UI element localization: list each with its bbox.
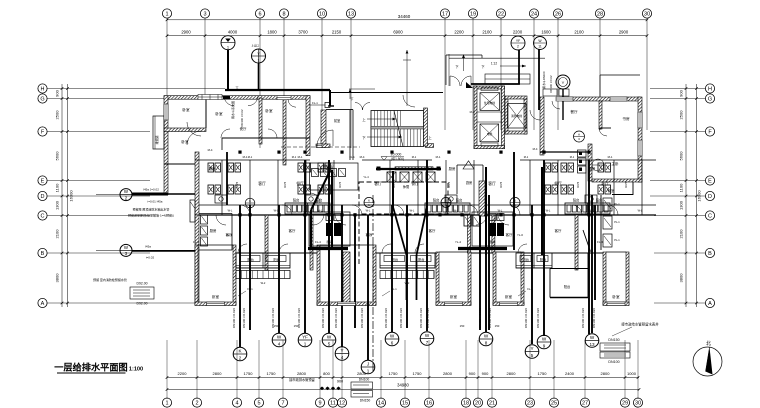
svg-text:W-L: W-L: [454, 209, 459, 213]
svg-text:厨房: 厨房: [489, 239, 495, 244]
svg-text:W-L: W-L: [590, 209, 595, 213]
svg-text:W: W: [277, 334, 282, 339]
svg-text:雨水斗系统图: 雨水斗系统图: [230, 101, 235, 119]
svg-text:排烟道: 排烟道: [154, 135, 159, 144]
svg-text:DN150: DN150: [360, 399, 371, 403]
svg-text:2150: 2150: [332, 30, 342, 35]
svg-text:2500: 2500: [679, 110, 684, 120]
svg-text:W: W: [327, 334, 332, 339]
svg-text:1750: 1750: [267, 371, 277, 376]
svg-text:1: 1: [367, 368, 370, 373]
svg-text:M-1: M-1: [298, 155, 303, 159]
svg-text:YL-5: YL-5: [366, 233, 372, 237]
svg-text:M-4: M-4: [208, 148, 213, 152]
svg-text:11: 11: [330, 401, 336, 407]
svg-text:M-1: M-1: [570, 155, 575, 159]
svg-text:9: 9: [543, 343, 546, 348]
svg-text:阳台: 阳台: [564, 284, 570, 289]
svg-text:2800: 2800: [213, 371, 223, 376]
svg-text:一层给排水平面图: 一层给排水平面图: [54, 362, 128, 373]
svg-text:DN100 i=0.026: DN100 i=0.026: [426, 308, 430, 328]
svg-text:DN75: DN75: [448, 181, 451, 188]
svg-text:B: B: [41, 251, 45, 257]
svg-text:DN100 i=0.026: DN100 i=0.026: [592, 308, 596, 328]
svg-text:书房: 书房: [622, 116, 630, 121]
svg-text:1:100: 1:100: [129, 367, 143, 373]
svg-text:A: A: [578, 133, 580, 137]
svg-text:阳台: 阳台: [596, 198, 602, 203]
svg-text:阳台: 阳台: [573, 198, 579, 203]
svg-text:1100: 1100: [679, 183, 684, 192]
svg-text:Y: Y: [340, 348, 343, 353]
svg-text:800: 800: [323, 371, 330, 376]
svg-text:客厅: 客厅: [374, 181, 382, 186]
svg-text:上山口: 上山口: [251, 44, 259, 48]
svg-text:2800: 2800: [601, 371, 611, 376]
svg-text:34460: 34460: [398, 14, 411, 19]
svg-text:M-4: M-4: [360, 155, 365, 159]
svg-text:客厅: 客厅: [429, 228, 436, 233]
svg-text:2900: 2900: [181, 30, 191, 35]
svg-text:餐厅: 餐厅: [296, 181, 304, 186]
svg-text:DN75: DN75: [236, 181, 239, 188]
svg-text:客厅: 客厅: [258, 181, 266, 186]
svg-text:28: 28: [597, 11, 603, 17]
svg-text:B: B: [708, 251, 712, 257]
svg-text:E: E: [708, 178, 712, 184]
svg-text:4: 4: [235, 401, 238, 407]
svg-text:厨房: 厨房: [449, 166, 456, 171]
svg-text:DN100 i=0.026: DN100 i=0.026: [536, 308, 540, 328]
svg-text:YF: YF: [302, 334, 308, 339]
svg-text:1600: 1600: [541, 30, 551, 35]
svg-text:1750: 1750: [413, 371, 423, 376]
svg-text:G: G: [708, 96, 712, 102]
svg-text:W-L: W-L: [228, 209, 233, 213]
svg-text:DN100 i=0.026: DN100 i=0.026: [478, 308, 482, 328]
svg-text:2500: 2500: [55, 110, 60, 120]
svg-text:M-1: M-1: [608, 155, 613, 159]
svg-text:2100: 2100: [679, 229, 684, 239]
svg-text:17: 17: [442, 11, 448, 17]
svg-text:M-1: M-1: [412, 155, 417, 159]
svg-text:YL-6: YL-6: [517, 233, 523, 237]
svg-text:阳台: 阳台: [433, 198, 439, 203]
svg-text:Y: Y: [562, 80, 565, 85]
svg-text:Y: Y: [530, 346, 533, 351]
svg-text:2400: 2400: [565, 371, 575, 376]
svg-text:16300: 16300: [69, 190, 74, 202]
svg-text:5600: 5600: [55, 151, 60, 161]
svg-text:DN100 i=0.026: DN100 i=0.026: [581, 308, 585, 328]
svg-text:H: H: [708, 86, 712, 92]
svg-text:D: D: [41, 194, 45, 200]
svg-text:2: 2: [517, 45, 519, 49]
svg-text:8: 8: [485, 340, 488, 345]
svg-text:C: C: [41, 213, 45, 219]
svg-text:150: 150: [274, 324, 279, 328]
svg-text:1750: 1750: [538, 371, 548, 376]
svg-text:6: 6: [391, 340, 394, 345]
svg-text:接市政给水管预留水表井: 接市政给水管预留水表井: [621, 322, 659, 327]
svg-text:FL-4: FL-4: [597, 240, 603, 244]
svg-text:PL-1: PL-1: [614, 202, 620, 206]
svg-text:4: 4: [341, 355, 344, 360]
svg-text:YL-4: YL-4: [363, 175, 369, 179]
svg-text:W: W: [390, 333, 395, 338]
svg-text:W: W: [542, 336, 547, 341]
svg-text:DN100 i=0.026: DN100 i=0.026: [321, 308, 325, 328]
svg-text:19: 19: [470, 11, 476, 17]
svg-text:DN100 i=0.026: DN100 i=0.026: [232, 308, 236, 328]
svg-text:W-L: W-L: [318, 209, 323, 213]
svg-text:14: 14: [378, 401, 384, 407]
svg-text:A: A: [41, 301, 45, 307]
svg-text:2100: 2100: [574, 30, 584, 35]
svg-text:YL-4: YL-4: [455, 240, 461, 244]
svg-text:15: 15: [402, 401, 408, 407]
svg-text:DN100: DN100: [359, 378, 370, 382]
svg-text:3800: 3800: [679, 273, 684, 283]
svg-text:1300: 1300: [55, 200, 60, 210]
svg-text:DN100 i=0.026: DN100 i=0.026: [384, 308, 388, 328]
svg-text:DN75: DN75: [339, 181, 342, 188]
svg-text:25: 25: [551, 401, 557, 407]
svg-text:客厅: 客厅: [488, 181, 496, 186]
svg-text:W-L: W-L: [498, 209, 503, 213]
svg-text:FL-1: FL-1: [193, 240, 199, 244]
svg-text:DN75: DN75: [577, 181, 580, 188]
svg-text:6900: 6900: [393, 30, 403, 35]
svg-text:DN75: DN75: [500, 181, 503, 188]
svg-text:DN100 i=0.026: DN100 i=0.026: [399, 308, 403, 328]
svg-text:1: 1: [304, 341, 307, 346]
svg-text:29: 29: [622, 401, 628, 407]
svg-text:W-2: W-2: [261, 281, 266, 285]
svg-text:9: 9: [318, 401, 321, 407]
svg-text:2200: 2200: [454, 30, 464, 35]
svg-text:客厅: 客厅: [289, 228, 296, 233]
svg-text:8: 8: [282, 11, 285, 17]
svg-text:W-L: W-L: [274, 209, 279, 213]
svg-text:10: 10: [319, 11, 325, 17]
svg-text:DN150: DN150: [608, 338, 619, 342]
svg-text:雨水斗DN100: 雨水斗DN100: [542, 71, 546, 89]
svg-text:Y: Y: [257, 52, 260, 56]
svg-text:1300: 1300: [679, 200, 684, 210]
svg-text:D92.00: D92.00: [137, 282, 148, 286]
svg-text:6: 6: [258, 11, 261, 17]
svg-text:廚房: 廚房: [466, 180, 472, 185]
svg-text:3800: 3800: [55, 273, 60, 283]
svg-text:D: D: [708, 194, 712, 200]
svg-text:i=0.01 I45a: i=0.01 I45a: [148, 199, 163, 203]
svg-text:21: 21: [489, 401, 495, 407]
svg-text:卧室: 卧室: [265, 108, 273, 113]
svg-text:2200: 2200: [178, 371, 188, 376]
svg-text:16: 16: [426, 401, 432, 407]
svg-text:卧室: 卧室: [212, 294, 220, 299]
svg-text:1:12: 1:12: [491, 62, 497, 66]
svg-text:2800: 2800: [507, 371, 517, 376]
svg-text:150: 150: [495, 324, 500, 328]
svg-text:预留至 屋顶消防水箱出水管: 预留至 屋顶消防水箱出水管: [133, 207, 170, 212]
svg-text:1800: 1800: [267, 30, 277, 35]
svg-text:150: 150: [294, 324, 299, 328]
svg-text:DN100 i=0.026: DN100 i=0.026: [334, 308, 338, 328]
svg-text:900: 900: [469, 371, 476, 376]
svg-text:1750: 1750: [389, 371, 399, 376]
svg-text:W: W: [425, 333, 430, 338]
svg-text:30: 30: [635, 401, 641, 407]
svg-text:1750: 1750: [244, 371, 254, 376]
svg-text:M-1: M-1: [524, 155, 529, 159]
svg-text:22: 22: [498, 11, 504, 17]
svg-text:客厅: 客厅: [506, 232, 513, 237]
svg-text:H: H: [41, 86, 45, 92]
svg-text:阳台: 阳台: [293, 198, 299, 203]
svg-text:W-L: W-L: [410, 209, 415, 213]
svg-text:1: 1: [165, 11, 168, 17]
svg-text:5: 5: [531, 353, 534, 358]
svg-text:DN100 i=0.026: DN100 i=0.026: [242, 308, 246, 328]
svg-text:5: 5: [328, 341, 331, 346]
svg-text:23: 23: [527, 401, 533, 407]
svg-text:电梯: 电梯: [487, 132, 493, 136]
svg-text:2100: 2100: [482, 30, 492, 35]
svg-text:厨房: 厨房: [209, 166, 216, 171]
svg-text:DN75: DN75: [284, 181, 287, 188]
svg-text:13: 13: [589, 342, 595, 347]
svg-text:C: C: [708, 213, 712, 219]
svg-text:阳台: 阳台: [456, 198, 462, 203]
svg-text:i=0.02: i=0.02: [146, 256, 155, 260]
svg-text:前室: 前室: [334, 118, 340, 123]
svg-text:餐厅: 餐厅: [554, 181, 562, 186]
svg-text:900: 900: [482, 371, 489, 376]
svg-text:M-1: M-1: [292, 155, 297, 159]
svg-text:餐厅: 餐厅: [570, 109, 578, 114]
svg-text:主卧: 主卧: [611, 161, 619, 166]
svg-text:DN75: DN75: [393, 181, 396, 188]
svg-text:2800: 2800: [443, 371, 453, 376]
svg-text:M-1: M-1: [248, 155, 253, 159]
svg-text:YF: YF: [516, 39, 520, 43]
svg-text:DN100 i=0.026: DN100 i=0.026: [524, 308, 528, 328]
svg-text:排烟机房: 排烟机房: [322, 164, 333, 168]
svg-text:DN100: DN100: [608, 360, 619, 364]
svg-text:2: 2: [195, 401, 198, 407]
svg-text:26: 26: [555, 11, 561, 17]
svg-text:2900: 2900: [619, 30, 629, 35]
svg-text:休閒: 休閒: [403, 184, 409, 189]
svg-text:卧室: 卧室: [505, 294, 513, 299]
svg-text:W-L: W-L: [638, 209, 643, 213]
svg-text:DN100 i=0.02: DN100 i=0.02: [549, 75, 553, 93]
svg-text:18: 18: [463, 401, 469, 407]
svg-text:16300: 16300: [697, 190, 702, 202]
svg-text:客厅: 客厅: [555, 228, 562, 233]
svg-text:M-4: M-4: [533, 147, 538, 151]
svg-text:M-1: M-1: [243, 155, 248, 159]
svg-text:27: 27: [582, 401, 588, 407]
svg-text:DN100 i=0.02: DN100 i=0.02: [240, 109, 244, 127]
svg-text:预留 室内消防栓预留水管: 预留 室内消防栓预留水管: [93, 277, 127, 282]
svg-text:预留通至屋顶(接至矮墙·1=4(预留)): 预留通至屋顶(接至矮墙·1=4(预留)): [128, 212, 174, 217]
svg-text:I45a J=0.02: I45a J=0.02: [143, 188, 159, 192]
svg-text:1: 1: [258, 59, 260, 63]
svg-text:FL-1: FL-1: [312, 101, 318, 105]
svg-text:下: 下: [350, 97, 353, 101]
svg-text:11: 11: [538, 45, 542, 49]
svg-text:2: 2: [239, 355, 242, 360]
svg-text:12: 12: [339, 401, 345, 407]
svg-text:卧室: 卧室: [215, 111, 223, 116]
svg-text:住宅电梯: 住宅电梯: [484, 101, 495, 105]
svg-text:XL-1: XL-1: [226, 233, 232, 237]
svg-text:E: E: [41, 178, 45, 184]
svg-text:W: W: [484, 333, 489, 338]
svg-text:PL-1: PL-1: [614, 220, 620, 224]
svg-text:PL-1: PL-1: [614, 238, 620, 242]
svg-text:XL-1: XL-1: [349, 155, 355, 159]
svg-text:D92.00: D92.00: [137, 302, 148, 306]
svg-text:M-1: M-1: [436, 155, 441, 159]
svg-text:消防电梯: 消防电梯: [511, 114, 522, 118]
svg-text:W-L: W-L: [546, 209, 551, 213]
svg-text:30: 30: [644, 11, 650, 17]
svg-text:900: 900: [679, 89, 684, 96]
svg-text:I45a: I45a: [145, 245, 151, 249]
svg-text:7: 7: [426, 340, 429, 345]
svg-text:4000: 4000: [228, 30, 238, 35]
svg-text:5: 5: [257, 401, 260, 407]
svg-text:卧室: 卧室: [450, 294, 458, 299]
svg-text:900: 900: [55, 89, 60, 96]
svg-text:1100: 1100: [55, 183, 60, 192]
svg-text:J: J: [367, 361, 369, 366]
svg-text:34980: 34980: [397, 383, 409, 388]
svg-text:5600: 5600: [679, 151, 684, 161]
svg-text:2800: 2800: [297, 371, 307, 376]
svg-text:150: 150: [460, 324, 465, 328]
svg-text:厨房: 厨房: [210, 228, 217, 233]
svg-text:北: 北: [706, 340, 711, 347]
svg-text:1: 1: [165, 401, 168, 407]
svg-text:2100: 2100: [55, 229, 60, 239]
svg-text:接市政排水管预留: 接市政排水管预留: [289, 377, 315, 382]
svg-text:1000: 1000: [627, 371, 637, 376]
svg-text:3700: 3700: [298, 30, 308, 35]
svg-text:7: 7: [281, 401, 284, 407]
svg-text:4: 4: [278, 341, 281, 346]
svg-text:2200: 2200: [513, 30, 523, 35]
svg-text:3: 3: [203, 11, 206, 17]
svg-text:W: W: [590, 335, 595, 340]
svg-text:20: 20: [475, 401, 481, 407]
svg-text:M-2: M-2: [470, 110, 475, 114]
svg-text:W-L: W-L: [366, 209, 371, 213]
svg-text:FL-4: FL-4: [315, 240, 321, 244]
svg-text:DN100 i=0.026: DN100 i=0.026: [419, 308, 423, 328]
svg-text:A: A: [708, 301, 712, 307]
svg-text:13: 13: [348, 11, 354, 17]
svg-text:DN100 i=0.026: DN100 i=0.026: [360, 308, 364, 328]
svg-text:卧室: 卧室: [612, 294, 620, 299]
svg-text:DN75: DN75: [625, 181, 628, 188]
svg-text:客厅: 客厅: [601, 181, 609, 186]
svg-text:G: G: [40, 96, 44, 102]
svg-text:900: 900: [337, 380, 343, 384]
svg-text:24: 24: [531, 11, 537, 17]
svg-text:卧室: 卧室: [182, 107, 190, 112]
svg-text:DN100 i=0.026: DN100 i=0.026: [488, 308, 492, 328]
